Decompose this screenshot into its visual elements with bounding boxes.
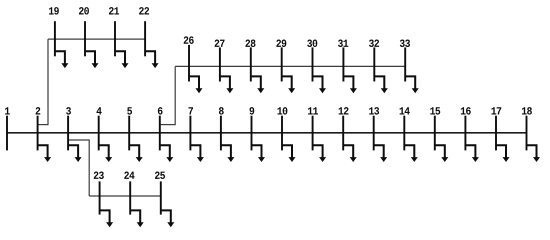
bus 20 bar xyxy=(84,21,86,56)
node 6 label xyxy=(158,107,163,114)
node 18 label xyxy=(522,107,532,114)
bus 32 bar xyxy=(373,47,375,81)
bus 16 bar xyxy=(464,116,466,151)
node 30 label xyxy=(307,40,317,47)
bus 26 bar xyxy=(188,45,190,82)
node 9 label xyxy=(250,107,255,114)
load arrow at bus 31 xyxy=(343,76,357,93)
load arrow at bus 10 xyxy=(282,145,296,162)
node 5 label xyxy=(127,107,132,114)
bus 31 bar xyxy=(342,47,344,81)
load arrow at bus 17 xyxy=(496,145,510,162)
bus 17 bar xyxy=(495,116,497,151)
node 26 label xyxy=(184,36,194,43)
bus 10 bar xyxy=(281,116,283,151)
bus 33 bar xyxy=(404,47,406,81)
load arrow at bus 22 xyxy=(145,51,159,68)
bus 22 bar xyxy=(144,21,146,56)
load arrow at bus 6 xyxy=(160,145,174,162)
bus 15 bar xyxy=(434,116,436,151)
node 8 label xyxy=(219,107,224,114)
bus 1 bar xyxy=(6,116,8,151)
load arrow at bus 11 xyxy=(313,145,327,162)
load arrow at bus 21 xyxy=(115,51,129,68)
node 28 label xyxy=(245,40,255,47)
wire: branch feeder 19-22 xyxy=(48,38,145,40)
load arrow at bus 9 xyxy=(252,145,266,162)
bus 24 bar xyxy=(129,181,131,214)
load arrow at bus 7 xyxy=(190,145,204,162)
load arrow at bus 29 xyxy=(282,76,296,93)
node 19 label xyxy=(49,7,59,14)
node 10 label xyxy=(277,107,287,114)
bus 5 bar xyxy=(128,116,130,151)
node 13 label xyxy=(369,107,379,114)
wire: branch link bus 3 to node 23 xyxy=(68,139,89,196)
bus 8 bar xyxy=(220,116,222,151)
load arrow at bus 2 xyxy=(38,145,52,162)
node 20 label xyxy=(79,7,89,14)
node 32 label xyxy=(369,40,379,47)
bus 11 bar xyxy=(312,116,314,151)
load arrow at bus 20 xyxy=(85,51,99,68)
load arrow at bus 18 xyxy=(527,145,541,162)
load arrow at bus 24 xyxy=(130,210,144,227)
node 14 label xyxy=(400,107,410,114)
load arrow at bus 8 xyxy=(221,145,235,162)
load arrow at bus 3 xyxy=(68,145,82,162)
bus 18 bar xyxy=(526,116,528,151)
bus 4 bar xyxy=(98,116,100,151)
bus 23 bar xyxy=(99,181,101,214)
node 15 label xyxy=(430,107,440,114)
bus 7 bar xyxy=(189,116,191,151)
bus 29 bar xyxy=(281,47,283,81)
load arrow at bus 32 xyxy=(374,76,388,93)
wire: branch link bus 6 to node 26 xyxy=(160,66,175,125)
node 22 label xyxy=(139,7,149,14)
wire: branch feeder 23-25 xyxy=(89,195,161,197)
load arrow at bus 16 xyxy=(465,145,479,162)
node 12 label xyxy=(339,107,349,114)
node 27 label xyxy=(215,40,225,47)
load arrow at bus 15 xyxy=(435,145,449,162)
node 7 label xyxy=(188,107,193,114)
load arrow at bus 12 xyxy=(343,145,357,162)
load arrow at bus 19 xyxy=(55,51,69,68)
node 1 label xyxy=(5,107,10,114)
node 29 label xyxy=(276,40,286,47)
node 33 label xyxy=(400,40,410,47)
load arrow at bus 4 xyxy=(99,145,113,162)
load arrow at bus 5 xyxy=(129,145,143,162)
bus 12 bar xyxy=(342,116,344,151)
wire: branch link bus 2 to node 19 xyxy=(38,39,48,125)
node 23 label xyxy=(94,172,104,179)
node 17 label xyxy=(491,107,501,114)
bus 28 bar xyxy=(250,47,252,81)
load arrow at bus 23 xyxy=(100,210,114,227)
node 4 label xyxy=(96,107,101,114)
node 21 label xyxy=(109,7,119,14)
bus 21 bar xyxy=(114,21,116,56)
load arrow at bus 27 xyxy=(220,76,234,93)
bus 30 bar xyxy=(312,47,314,81)
load arrow at bus 13 xyxy=(374,145,388,162)
bus 9 bar xyxy=(251,116,253,151)
bus 19 bar xyxy=(54,21,56,56)
node 2 label xyxy=(36,107,41,114)
bus 13 bar xyxy=(373,116,375,151)
wire: main feeder bus1-bus18 xyxy=(7,132,527,134)
bus 2 bar xyxy=(37,116,39,151)
wire: branch feeder 26-33 xyxy=(175,65,405,67)
node 3 label xyxy=(66,107,71,114)
bus 3 bar xyxy=(67,116,69,151)
node 31 label xyxy=(338,40,348,47)
node 11 label xyxy=(308,107,318,114)
bus 25 bar xyxy=(160,181,162,214)
load arrow at bus 25 xyxy=(161,210,175,227)
node 16 label xyxy=(461,107,471,114)
load arrow at bus 33 xyxy=(405,76,419,93)
bus 14 bar xyxy=(403,116,405,151)
node 25 label xyxy=(155,172,165,179)
load arrow at bus 26 xyxy=(189,76,203,93)
load arrow at bus 30 xyxy=(313,76,327,93)
bus 27 bar xyxy=(219,47,221,81)
load arrow at bus 14 xyxy=(404,145,418,162)
load arrow at bus 28 xyxy=(251,76,264,93)
node 24 label xyxy=(124,172,134,179)
bus 6 bar xyxy=(159,116,161,151)
